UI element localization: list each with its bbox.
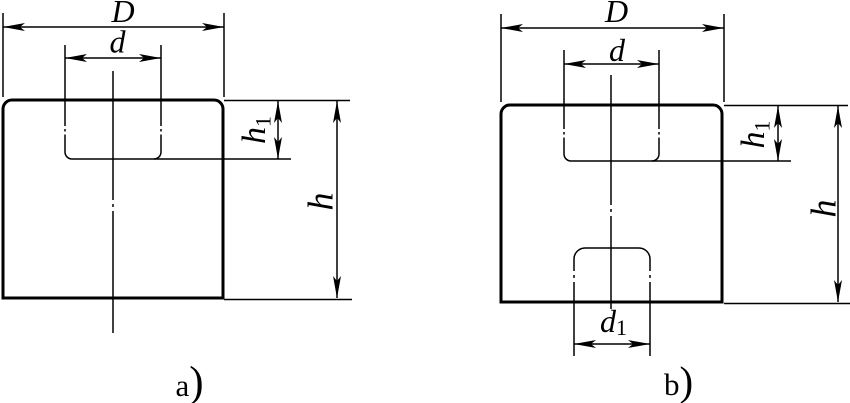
svg-text:d: d xyxy=(609,32,626,68)
figure b: top pocket left corner arc xyxy=(564,154,571,161)
svg-text:h1: h1 xyxy=(236,116,276,144)
figure a: dimension h1 arrows xyxy=(274,101,282,159)
figure a: vertical center line xyxy=(112,71,114,333)
figure a: top pocket right corner arc xyxy=(154,152,161,159)
figure b: dimension d extension line left xyxy=(563,50,565,105)
figure a: top pocket left corner arc xyxy=(65,152,72,159)
figure a: top pocket right wall xyxy=(160,100,162,152)
figure b: top pocket right corner arc xyxy=(652,154,659,161)
svg-text:d: d xyxy=(110,24,127,60)
figure b: dimension D extension line right xyxy=(723,14,725,102)
svg-text:a): a) xyxy=(176,359,204,403)
figure a: dimension D line with arrows xyxy=(3,23,224,31)
figure b: block body outline xyxy=(501,105,722,302)
svg-text:h: h xyxy=(804,200,844,218)
figure b: top pocket right wall xyxy=(658,105,660,154)
figure a: top pocket bottom line extended to h1 dimension xyxy=(72,158,291,160)
figure b: dimension D extension line left xyxy=(500,14,502,102)
figure b: top edge extension line xyxy=(724,105,848,107)
figure b: dimension d line with arrows xyxy=(564,60,659,68)
figure a: dimension D extension line left xyxy=(2,13,4,97)
figure a: dimension d line with arrows xyxy=(65,54,161,62)
figure b: dimension d extension line right xyxy=(658,50,660,105)
svg-text:b): b) xyxy=(664,358,693,403)
figure a: dimension D extension line right xyxy=(223,13,225,97)
svg-text:h1: h1 xyxy=(735,121,775,149)
figure b: bottom pocket right wall extended to d1 dimension xyxy=(649,259,651,356)
figure a: dimension d extension line left xyxy=(64,45,66,100)
svg-text:d1: d1 xyxy=(600,303,627,340)
figure b: bottom pocket right corner arc xyxy=(639,248,650,259)
figure b: dimension D line with arrows xyxy=(501,24,724,32)
figure b: dimension d1 line with arrows xyxy=(574,340,650,348)
figure b: bottom pocket left wall extended to d1 dimension xyxy=(573,259,575,356)
figure a: bottom edge extension line xyxy=(224,299,352,301)
figure b: bottom pocket left corner arc xyxy=(574,248,585,259)
figure a: dimension h arrows xyxy=(333,101,341,298)
svg-text:D: D xyxy=(604,0,628,29)
figure b: top pocket left wall xyxy=(563,105,565,154)
figure a: dimension d extension line right xyxy=(160,45,162,100)
figure b: top pocket bottom line extended to h1 dimension xyxy=(571,160,791,162)
figure b: bottom edge extension line xyxy=(724,303,850,305)
figure b: bottom pocket top line xyxy=(585,247,639,249)
figure a: top edge extension line xyxy=(224,100,350,102)
svg-text:h: h xyxy=(301,193,341,211)
figure b: dimension h1 arrows xyxy=(774,106,782,161)
figure b: vertical center line xyxy=(610,75,612,309)
figure a: top pocket left wall xyxy=(64,100,66,152)
figure a: block body outline xyxy=(3,100,223,298)
figure b: dimension h arrows xyxy=(834,106,842,302)
